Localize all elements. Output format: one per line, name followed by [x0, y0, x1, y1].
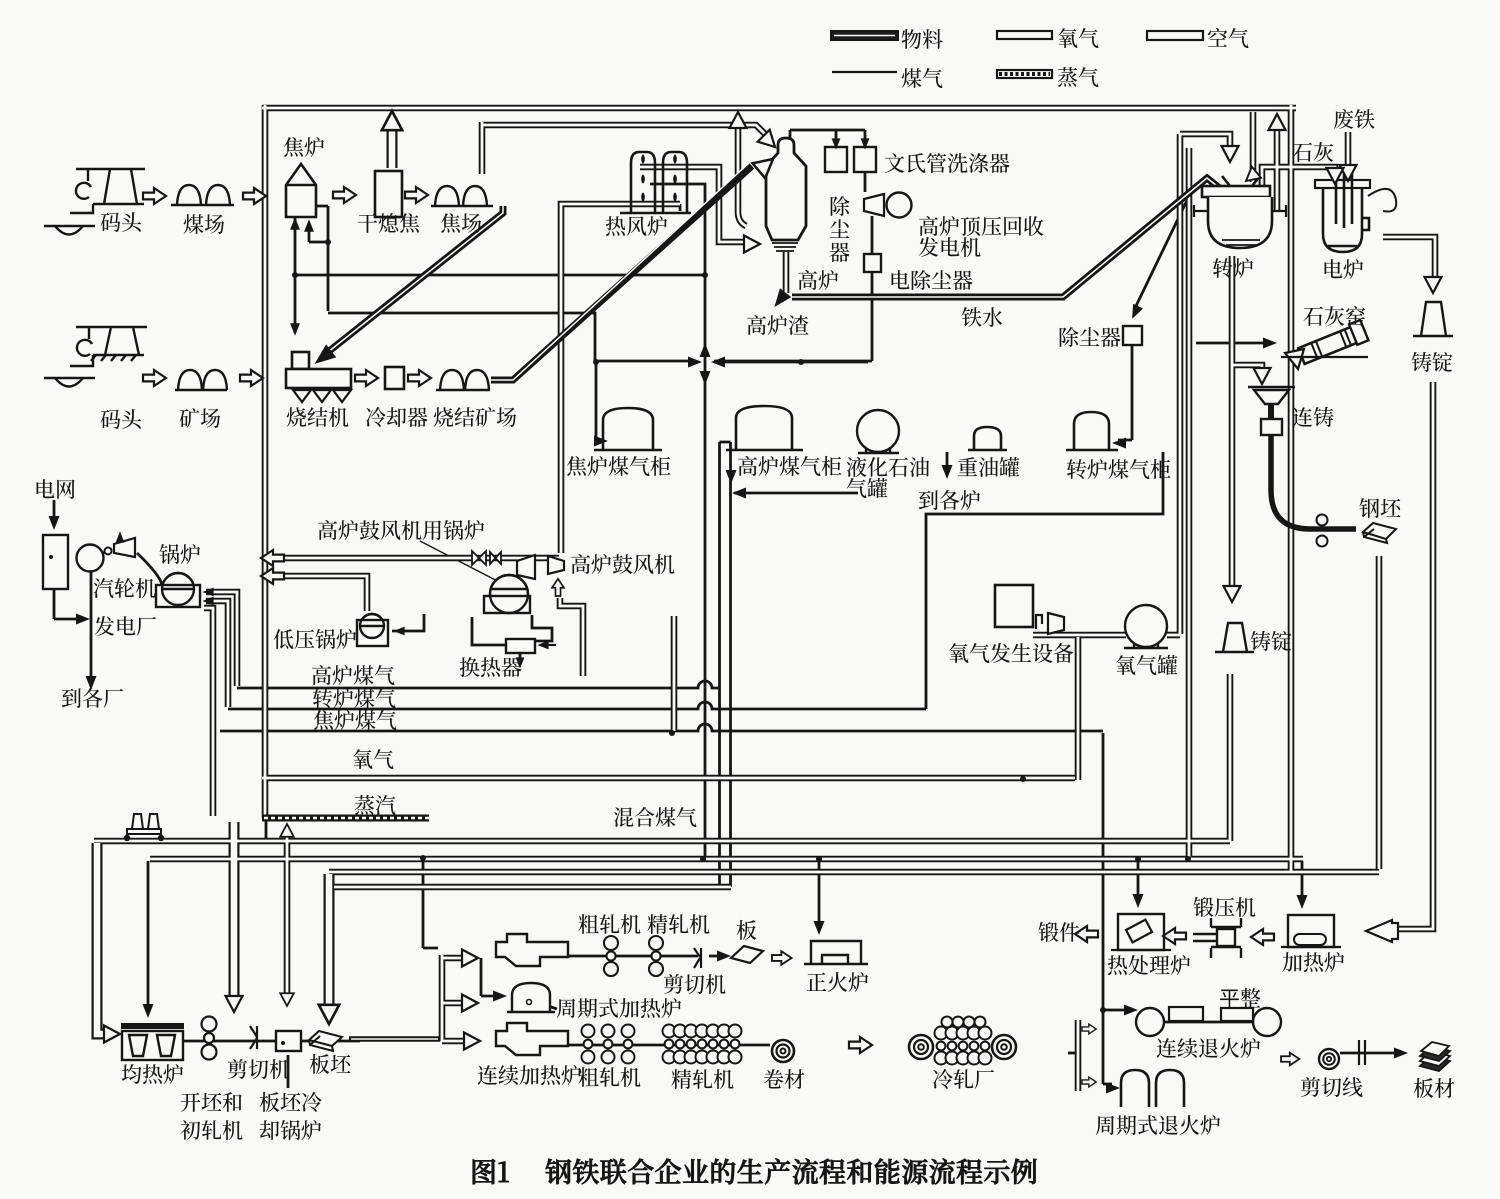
dust catcher box: [825, 147, 847, 172]
converter gas holder: [1066, 412, 1118, 450]
dry quench box: [375, 171, 402, 217]
arrow coke oven to dry quench: [333, 187, 356, 203]
LPG to holder line: [734, 492, 858, 495]
svg-text:板坯: 板坯: [309, 1049, 352, 1079]
forging press: [1193, 918, 1241, 958]
svg-text:发电机: 发电机: [918, 232, 981, 262]
mixing cross horizontal right: [714, 361, 868, 364]
svg-text:氧气: 氧气: [352, 744, 394, 774]
legend steam bar: [997, 70, 1052, 78]
plate piece: [731, 946, 763, 963]
stove base line: [620, 212, 691, 215]
cold mill coil right: [992, 1035, 1016, 1059]
svg-text:连续退火炉: 连续退火炉: [1156, 1033, 1261, 1063]
head steam dropper down: [226, 996, 243, 1012]
svg-text:除尘器: 除尘器: [1058, 322, 1121, 352]
annealing feed drop: [1103, 733, 1112, 1084]
wide pipe inner cores: [97, 126, 392, 1034]
converter gas holder collect line: [926, 452, 1163, 709]
heat exchanger loop right: [532, 615, 552, 641]
normalizing furnace: [804, 941, 868, 964]
head slab dropper down: [319, 1005, 339, 1024]
mill strand line 1: [183, 1040, 360, 1043]
dock 2 boat: [44, 378, 95, 387]
arrow dry quench to coke yard: [405, 187, 428, 203]
svg-text:锻压机: 锻压机: [1193, 892, 1256, 922]
svg-text:石灰: 石灰: [1292, 137, 1334, 167]
LPG sphere tank: [857, 410, 899, 453]
annealing furnace box 2: [1221, 1008, 1253, 1021]
svg-text:空气: 空气: [1207, 23, 1249, 53]
svg-text:焦炉煤气: 焦炉煤气: [313, 705, 397, 735]
head converter steel down: [1224, 586, 1241, 602]
svg-text:锻件: 锻件: [1038, 917, 1080, 947]
precipitator down line: [714, 272, 872, 361]
head sinter line into BF: [753, 152, 780, 179]
coke oven branch line: [309, 224, 328, 242]
finishing mill stands bottom row: [663, 1025, 742, 1064]
dock 1 hook: [76, 183, 91, 199]
reheating furnace base: [1281, 946, 1341, 948]
head soaking pit feed right: [104, 1026, 120, 1043]
coke oven house: [286, 164, 316, 217]
svg-text:氧气发生设备: 氧气发生设备: [948, 638, 1074, 668]
ore yard baseline: [175, 389, 227, 391]
svg-text:物料: 物料: [901, 24, 943, 54]
head mixing cross up: [700, 343, 711, 357]
svg-text:转炉: 转炉: [1212, 253, 1254, 283]
gas holder duct walls: [720, 442, 731, 887]
sinter yard mounds: [440, 370, 464, 390]
air blast arrow left 1: [261, 550, 284, 566]
mill strand line top row: [568, 955, 698, 958]
head soaking thin drop: [143, 1004, 154, 1018]
head e-furnace tap down: [1425, 277, 1442, 293]
head coke holder feed: [594, 436, 608, 447]
low pressure boiler: [357, 614, 388, 646]
lime kiln tilted drum: [1297, 320, 1368, 366]
plate arrow line: [709, 955, 725, 958]
svg-text:铸锭: 铸锭: [1411, 347, 1453, 377]
reheat furnace drop: [1301, 861, 1304, 903]
head annealing feed: [1124, 1005, 1138, 1016]
air pipe valve 2: [490, 552, 501, 564]
svg-text:混合煤气: 混合煤气: [613, 802, 697, 832]
legend material bar: [831, 31, 898, 40]
head coke diagonal: [310, 344, 337, 370]
head branch arrow 2: [462, 995, 478, 1012]
arrow press to heat treatment: [1163, 928, 1186, 944]
blower boiler circle: [484, 575, 530, 613]
steam turbine circle: [77, 545, 104, 572]
shear line coil: [1319, 1049, 1339, 1069]
soaking pit top bar: [121, 1023, 184, 1029]
bracket arrow top: [1082, 1024, 1096, 1034]
blower suction arrow up: [552, 579, 564, 596]
head boiler feed 2: [202, 597, 213, 606]
head lime pipe down: [1327, 168, 1344, 184]
cooler box: [385, 367, 404, 389]
ingot mould middle: [1215, 623, 1254, 652]
converter trunnions: [1194, 205, 1286, 217]
converter dust line: [1136, 192, 1191, 306]
blooming mill stand: [202, 1017, 217, 1060]
kiln feed line: [1196, 342, 1268, 345]
sinter yard baseline: [436, 389, 490, 391]
heat exchanger drop: [519, 652, 522, 664]
head turbine exhaust: [116, 531, 125, 542]
head branch arrow 1: [462, 950, 478, 967]
head shear dropper down: [280, 993, 294, 1006]
blower boiler callout line: [420, 541, 507, 586]
svg-text:精轧机: 精轧机: [647, 909, 710, 939]
shear 2 mark: [694, 948, 701, 968]
svg-text:连铸: 连铸: [1292, 402, 1334, 432]
batch furnace callout: [540, 1003, 557, 1009]
venturi scrubber box: [854, 147, 876, 172]
solid arrowheads: [49, 138, 1409, 1093]
batch heating furnace dome: [507, 983, 555, 1012]
svg-text:板材: 板材: [1413, 1073, 1455, 1103]
arrow furnace to press: [1251, 929, 1274, 945]
blast furnace profile: [766, 138, 806, 240]
svg-text:码头: 码头: [100, 404, 143, 434]
sinter machine discharge cones: [293, 390, 351, 402]
continuous heating furnace bottom: [496, 1023, 568, 1055]
caster strand thick line: [1271, 434, 1356, 529]
heat exchanger feed line: [541, 644, 556, 646]
svg-text:精轧机: 精轧机: [671, 1064, 734, 1094]
cold mill coil left: [909, 1035, 933, 1059]
svg-text:平整: 平整: [1219, 983, 1261, 1013]
shear line cutter mark: [1359, 1040, 1365, 1065]
svg-text:高炉: 高炉: [797, 265, 839, 295]
svg-text:煤场: 煤场: [183, 209, 225, 239]
reheating furnace box: [1288, 915, 1334, 947]
shear 1 mark: [250, 1026, 257, 1049]
arrow ore yard to sinter machine: [240, 370, 263, 386]
svg-text:剪切线: 剪切线: [1300, 1072, 1363, 1102]
head into converter gas holder: [1112, 438, 1126, 449]
cold mill stands: [935, 1017, 992, 1065]
head plate line: [717, 951, 731, 962]
dock 1 crane: [70, 169, 145, 213]
head hot blast into BF: [744, 236, 760, 253]
svg-text:板坯冷: 板坯冷: [259, 1087, 322, 1117]
head shear line: [1394, 1048, 1408, 1059]
power grid box dot: [49, 555, 53, 559]
head batch furnace feed: [493, 991, 507, 1002]
temper mill roll right: [1253, 1008, 1281, 1036]
blower turbine cone 1: [517, 555, 535, 579]
dock 2 crane: [70, 327, 147, 366]
coke oven underfire line: [294, 214, 297, 333]
turbine generator funnel: [114, 538, 135, 557]
dock 2 ground hatch: [91, 355, 136, 361]
turbine coupling: [105, 548, 112, 555]
stove link line: [650, 183, 706, 186]
air pipe valve 1: [472, 551, 486, 565]
blast furnace hearth hatch: [772, 243, 798, 251]
coke yard mounds: [435, 186, 459, 206]
head coke oven branch up: [304, 219, 314, 232]
svg-text:石灰窑: 石灰窑: [1303, 301, 1366, 331]
batch furnace feed line: [481, 958, 500, 996]
svg-text:冷却器: 冷却器: [365, 402, 428, 432]
soaking pit furnace: [122, 1031, 183, 1060]
svg-text:粗轧机: 粗轧机: [578, 909, 641, 939]
venturi drop: [864, 130, 867, 145]
steam header line: [262, 815, 429, 822]
coke gas bus: [220, 724, 1103, 731]
wide pipe outer strokes: [97, 126, 392, 1034]
heavy oil drop line: [946, 452, 949, 472]
bracket arrow bottom: [1082, 1077, 1096, 1087]
sinter machine body: [286, 369, 351, 388]
head holder pipe down: [726, 470, 737, 484]
frame left lower stub: [265, 818, 268, 842]
annealing line strand: [1150, 1021, 1267, 1024]
hot metal core: [792, 178, 1222, 297]
shear line arrow: [1340, 1052, 1400, 1055]
roughing mill stand top row: [604, 936, 618, 976]
svg-text:加热炉: 加热炉: [1282, 947, 1345, 977]
lime kiln base line: [1281, 356, 1368, 358]
sheet stack: [1420, 1042, 1450, 1071]
ingot mould top right: [1413, 302, 1453, 336]
svg-text:剪切机: 剪切机: [227, 1054, 290, 1084]
svg-text:低压锅炉: 低压锅炉: [273, 624, 357, 654]
svg-text:高炉鼓风机用锅炉: 高炉鼓风机用锅炉: [317, 515, 485, 545]
svg-text:板: 板: [736, 915, 757, 945]
svg-text:冷轧厂: 冷轧厂: [932, 1064, 995, 1094]
svg-text:电炉: 电炉: [1322, 254, 1364, 284]
caster tundish: [1248, 387, 1295, 404]
slab cooling boiler dot: [281, 1041, 285, 1045]
svg-text:热处理炉: 热处理炉: [1107, 950, 1191, 980]
normalizing furnace drop: [818, 859, 821, 930]
arrow sinter machine to cooler: [355, 370, 378, 386]
billet slab: [1363, 523, 1396, 543]
arrow annealing to shear line: [1281, 1053, 1299, 1066]
svg-text:锅炉: 锅炉: [159, 539, 201, 569]
svg-text:图1: 图1: [470, 1151, 510, 1190]
batch annealing dome 1: [1121, 1070, 1149, 1107]
svg-text:到各厂: 到各厂: [61, 683, 124, 713]
svg-text:汽轮机: 汽轮机: [93, 573, 156, 603]
svg-text:电除尘器: 电除尘器: [889, 265, 973, 295]
svg-text:焦炉煤气柜: 焦炉煤气柜: [566, 451, 671, 481]
boiler feed link: [137, 553, 162, 585]
head dust catcher drop: [832, 138, 841, 149]
oxygen plant fittings: [1036, 613, 1064, 634]
coke yard baseline: [431, 205, 493, 207]
head BF slag: [769, 288, 791, 311]
BF gas holder: [726, 406, 803, 450]
svg-text:发电厂: 发电厂: [94, 611, 157, 641]
arrow plate to normalizing furnace: [772, 951, 792, 965]
dock 1 boat: [44, 226, 95, 235]
head LPG line left: [732, 488, 746, 499]
sinter machine hopper: [292, 352, 309, 369]
sinter transport diagonal: [491, 166, 752, 380]
coke transport diagonal: [328, 206, 503, 352]
svg-text:铁水: 铁水: [961, 302, 1003, 332]
svg-text:初轧机: 初轧机: [180, 1115, 243, 1145]
svg-text:却锅炉: 却锅炉: [259, 1115, 322, 1145]
soaking pit thin drop: [147, 861, 150, 1012]
svg-text:高炉鼓风机: 高炉鼓风机: [570, 549, 675, 579]
svg-text:高炉煤气柜: 高炉煤气柜: [737, 451, 842, 481]
head caster feed down: [1254, 368, 1271, 384]
heat exchanger loop left: [472, 617, 506, 645]
batch furnace peephole: [527, 1000, 532, 1005]
converter vessel: [1202, 176, 1272, 248]
ore yard mounds: [178, 370, 202, 390]
head to factories: [86, 676, 97, 690]
coal yard baseline: [171, 204, 234, 206]
roughing mill stands bottom row: [582, 1025, 635, 1064]
oxygen sphere tank: [1124, 605, 1168, 648]
big arrow into reheating furnace: [1366, 920, 1398, 942]
electric furnace electrodes: [1336, 170, 1352, 228]
svg-text:文氏管洗涤器: 文氏管洗涤器: [884, 148, 1010, 178]
arrow coil to cold mill: [849, 1037, 872, 1053]
slab feed line: [349, 1036, 440, 1042]
coke diagonal core: [328, 206, 503, 352]
svg-text:转炉煤气柜: 转炉煤气柜: [1066, 454, 1171, 484]
head heavy oil drop: [942, 465, 953, 479]
svg-text:矿场: 矿场: [179, 403, 221, 433]
arrow cooler to sinter yard: [408, 370, 431, 386]
svg-text:气罐: 气罐: [846, 473, 888, 503]
head mixing cross right: [688, 357, 702, 368]
grid feed line: [53, 500, 56, 523]
head riser to frame: [730, 112, 747, 128]
pipe arrowheads hollow: [104, 111, 1442, 1050]
svg-text:钢坯: 钢坯: [1359, 493, 1402, 523]
svg-text:热风炉: 热风炉: [605, 211, 668, 241]
head heat exchanger drop: [516, 657, 525, 668]
stove flame marks: [641, 155, 677, 202]
svg-text:烧结机: 烧结机: [286, 402, 349, 432]
electrostatic precipitator box: [864, 254, 881, 272]
hot blast stove tower 1: [631, 152, 655, 212]
head coke oven underfire down: [290, 323, 300, 336]
svg-text:电网: 电网: [34, 474, 76, 504]
svg-text:到各炉: 到各炉: [918, 485, 981, 515]
head venturi drop: [861, 138, 870, 149]
head dry quench exhaust: [382, 111, 402, 130]
svg-text:铸锭: 铸锭: [1250, 626, 1292, 656]
arrow dock2 to ore yard: [143, 370, 166, 386]
hot blast stove tower 2: [663, 152, 687, 212]
arrow dock1 to coal yard: [143, 188, 166, 204]
heat treatment slab inside: [1126, 920, 1152, 943]
stove internal stub: [679, 204, 682, 211]
annealing feed arrow line: [1103, 1009, 1130, 1012]
heat treatment furnace box: [1118, 914, 1164, 950]
power boiler: [156, 573, 200, 607]
head kiln feed: [1263, 338, 1277, 349]
pipe rack support: [125, 814, 163, 840]
sinter diagonal core: [491, 162, 750, 380]
head normalizing drop: [814, 921, 825, 935]
svg-text:周期式加热炉: 周期式加热炉: [556, 993, 682, 1023]
coke oven gas line to right: [295, 274, 705, 277]
head low pressure boiler: [393, 627, 404, 636]
coke oven right drop line: [316, 206, 696, 361]
BF top uptake: [790, 130, 865, 141]
svg-text:焦场: 焦场: [440, 208, 482, 238]
svg-text:氧气罐: 氧气罐: [1115, 650, 1178, 680]
coal yard mounds: [177, 185, 201, 205]
power plant line to factories: [90, 571, 93, 682]
caster stem: [1268, 403, 1274, 419]
hot metal line: [792, 178, 1222, 297]
venturi to generator line: [864, 172, 867, 192]
slab cooling boiler box: [276, 1031, 301, 1051]
head grid feed: [49, 516, 60, 530]
head elbow into BF top: [758, 130, 781, 153]
svg-text:正火炉: 正火炉: [806, 967, 869, 997]
mill strand line bottom row: [568, 1044, 770, 1047]
generator circle: [887, 193, 912, 218]
svg-text:换热器: 换热器: [459, 652, 522, 682]
pipe inner cores: [94, 105, 1435, 1091]
pipe outer strokes: [94, 105, 1435, 1091]
head heat exchanger right: [537, 641, 548, 650]
coke oven gas holder: [594, 408, 662, 450]
svg-text:开坯和: 开坯和: [180, 1087, 243, 1117]
continuous heating furnace top: [496, 934, 568, 966]
svg-text:焦炉: 焦炉: [283, 132, 325, 162]
svg-text:重油罐: 重油罐: [957, 452, 1020, 482]
svg-text:均热炉: 均热炉: [121, 1059, 184, 1089]
slab cooling boiler callout: [287, 1055, 290, 1088]
svg-text:高炉渣: 高炉渣: [746, 310, 809, 340]
generator down line: [871, 216, 874, 254]
converter gas bus: [228, 702, 926, 709]
arrow coal yard to coke oven: [243, 188, 266, 204]
svg-text:蒸气: 蒸气: [1057, 62, 1099, 92]
shear thin drop: [423, 858, 438, 948]
blower turbine cone 2: [548, 556, 564, 574]
electric furnace cable hook: [1368, 189, 1396, 212]
reheating furnace billet: [1294, 934, 1326, 945]
heavy oil tank: [968, 427, 1007, 450]
dust catcher drop: [835, 130, 838, 145]
lime kiln discharge funnel: [1285, 349, 1304, 369]
turbine link line: [103, 549, 112, 553]
dock 2 hook: [77, 340, 92, 356]
BF gas bus: [237, 681, 719, 688]
turbine exhaust line: [119, 535, 122, 549]
legend air bar: [1147, 31, 1203, 40]
head batch annealing feed: [1106, 1083, 1120, 1094]
generator cone: [864, 194, 884, 216]
power grid box: [43, 535, 68, 589]
svg-text:周期式退火炉: 周期式退火炉: [1095, 1110, 1221, 1140]
coke holder feed drop: [596, 363, 600, 441]
head coke oven underfire up: [290, 217, 300, 230]
svg-text:连续加热炉: 连续加热炉: [477, 1060, 582, 1090]
svg-text:烧结矿场: 烧结矿场: [433, 402, 517, 432]
head converter riser up: [1269, 114, 1286, 130]
head lime into converter: [1241, 167, 1261, 187]
head shear dropper up: [280, 824, 294, 837]
head mixing cross left: [711, 357, 725, 368]
